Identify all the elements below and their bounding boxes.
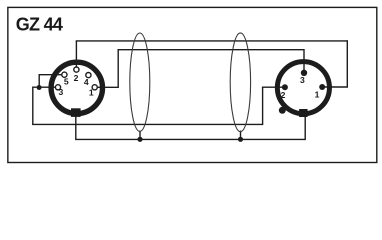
wire vertical down from pin5 to junction [38, 74, 40, 87]
svg-text:3: 3 [59, 87, 64, 97]
junction dot shield ellipse 1 [137, 137, 142, 142]
XLR notch [299, 109, 308, 117]
wire vertical up from DIN pin1 [117, 50, 119, 88]
XLR pin 1 [319, 84, 325, 90]
DIN pin 5 [62, 72, 67, 77]
DIN pin 2 [74, 67, 79, 72]
svg-text:1: 1 [315, 90, 320, 100]
wire DIN pin5 horizontal left [39, 74, 64, 76]
DIN pin 3 [55, 85, 60, 90]
wire vertical down to XLR pin3 [303, 49, 305, 73]
DIN pin 1 [92, 85, 97, 90]
junction dot shield ellipse 2 [238, 137, 243, 142]
svg-text:2: 2 [74, 73, 79, 83]
wire right vertical down to XLR pin1 level [346, 40, 348, 87]
XLR pin 3 [301, 70, 307, 76]
XLR connector ring [277, 62, 329, 114]
wire shield tap ellipse 1 [139, 131, 141, 140]
cable shield ellipse left [130, 33, 150, 131]
svg-text:1: 1 [89, 87, 94, 97]
DIN pin 4 [86, 73, 91, 78]
svg-text:5: 5 [64, 76, 69, 86]
junction dot pins 3+5 [37, 85, 42, 90]
XLR latch dot [279, 107, 286, 114]
wire shield rail horizontal [75, 138, 305, 140]
wire horizontal into XLR pin1 [322, 86, 348, 88]
wire top horizontal run [76, 40, 348, 42]
wire shield tap ellipse 2 [240, 131, 242, 140]
border frame [8, 7, 377, 162]
DIN connector ring [51, 62, 102, 113]
wire horizontal into XLR pin2 [262, 86, 285, 88]
wire DIN shell vertical down [75, 115, 77, 139]
wire ground rail horizontal [32, 123, 263, 125]
wire left vertical down to ground rail [32, 87, 34, 125]
wire vertical up to XLR shell [304, 115, 306, 141]
svg-text:4: 4 [84, 77, 89, 87]
svg-text:2: 2 [281, 90, 286, 100]
wire DIN pin1 horizontal right [95, 86, 119, 88]
wire second horizontal run [118, 49, 305, 51]
XLR pin 2 [282, 84, 288, 90]
svg-text:3: 3 [300, 75, 305, 85]
cable shield ellipse right [230, 33, 250, 132]
DIN notch [71, 108, 81, 117]
wire DIN pin2 vertical up [75, 41, 77, 70]
wire vertical up to XLR pin2 level [262, 87, 264, 125]
wire DIN pin3 horizontal left to corner [33, 86, 58, 88]
svg-text:GZ 44: GZ 44 [16, 14, 63, 34]
